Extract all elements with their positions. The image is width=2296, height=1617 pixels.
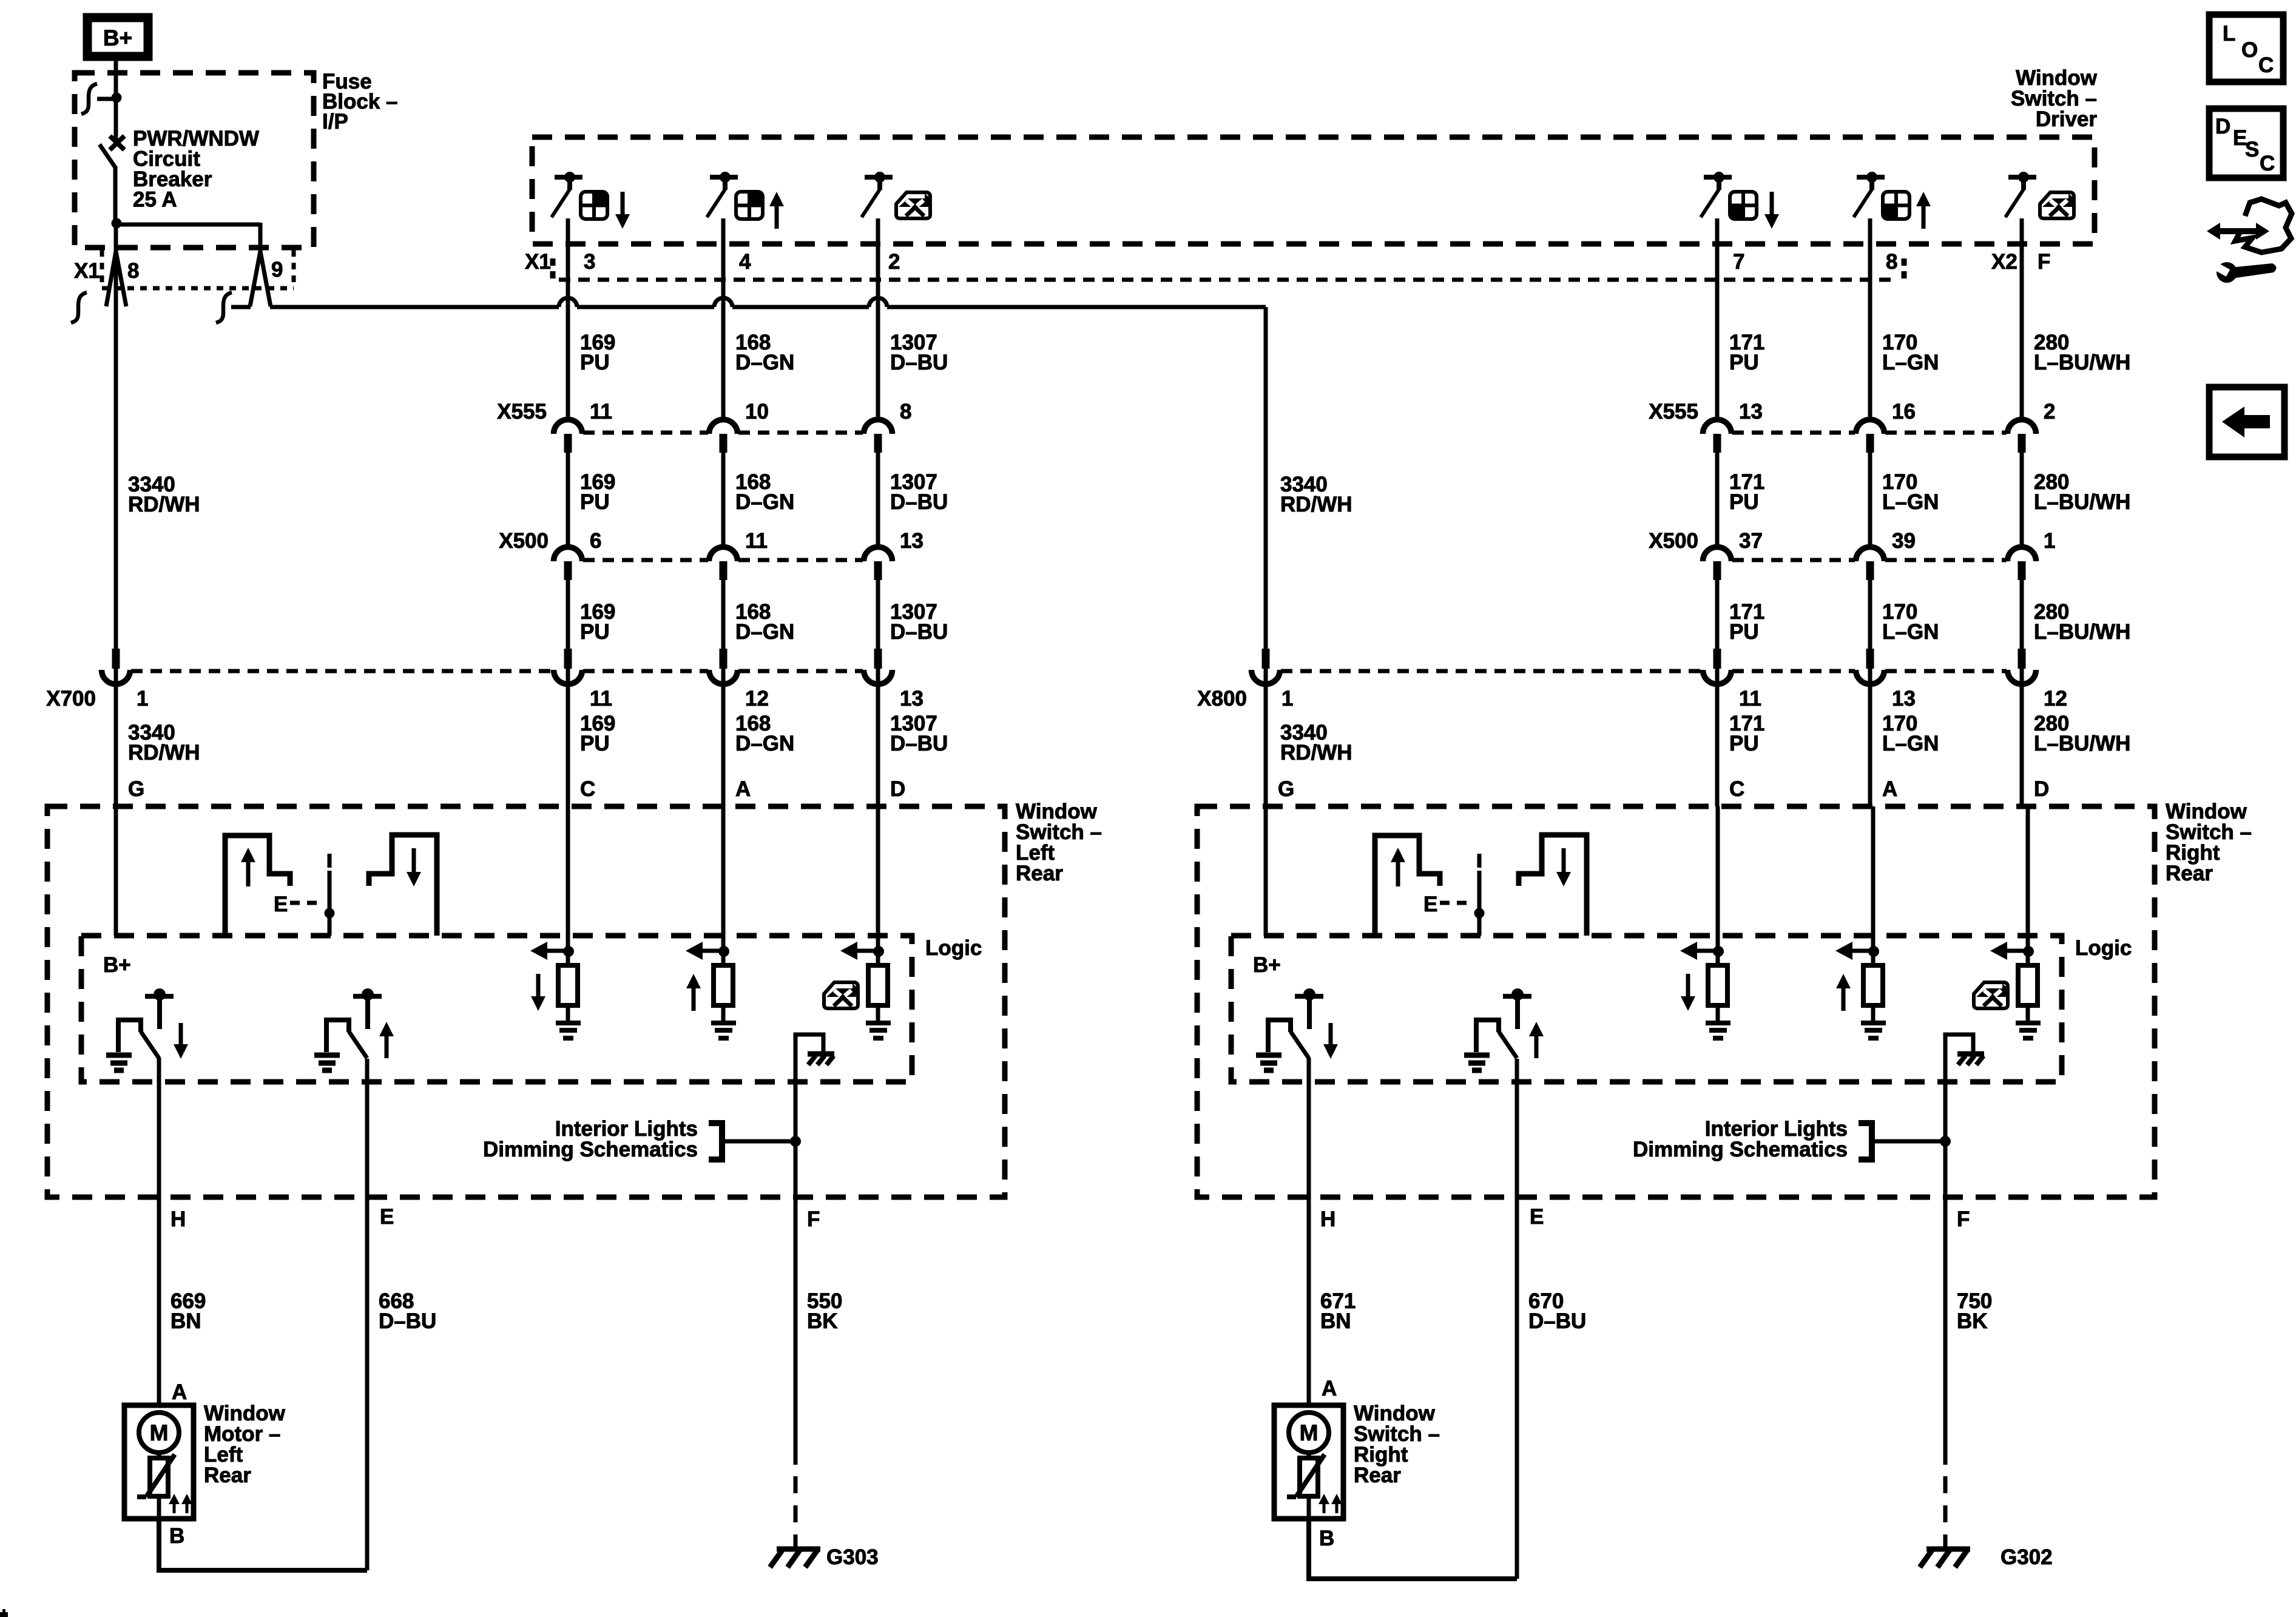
svg-text:10: 10 <box>745 400 769 424</box>
logic box <box>81 936 912 1082</box>
svg-text:6: 6 <box>590 529 601 553</box>
svg-text:X555: X555 <box>497 400 547 424</box>
svg-text:H: H <box>171 1207 186 1231</box>
switch S6 window express <box>2005 172 2074 218</box>
svg-text:25 A: 25 A <box>133 188 177 212</box>
pin A <box>735 777 751 801</box>
connector X555 pin 16 <box>1856 400 1916 453</box>
wire 3340 RD/WH left <box>114 306 118 649</box>
svg-text:16: 16 <box>1892 400 1916 424</box>
svg-text:Logic: Logic <box>925 936 982 960</box>
pin E left <box>380 1205 394 1229</box>
wire label 169 PU <box>580 600 615 644</box>
interior lights dimming note <box>483 1117 698 1161</box>
pin 4 <box>739 250 751 274</box>
svg-text:1: 1 <box>1281 687 1293 711</box>
svg-text:O: O <box>2241 38 2258 62</box>
window switch left rear label <box>1016 800 1102 885</box>
resistor express branch <box>1974 942 2041 1038</box>
wire motor B return <box>1309 1519 1517 1579</box>
connector X555 pin 8 <box>864 400 912 453</box>
logic label <box>2075 936 2132 960</box>
svg-text:A: A <box>1322 1377 1337 1400</box>
pin F left <box>807 1207 820 1231</box>
svg-text:11: 11 <box>1739 687 1761 711</box>
svg-text:4: 4 <box>739 250 751 274</box>
pin F <box>2038 250 2050 274</box>
svg-text:G: G <box>128 777 144 801</box>
svg-text:D–BU: D–BU <box>890 620 948 644</box>
wire <box>2020 218 2024 419</box>
svg-text:RD/WH: RD/WH <box>128 741 200 765</box>
window switch right rear box <box>1197 806 2155 1197</box>
wire <box>1868 579 1872 649</box>
svg-text:D: D <box>2034 777 2049 801</box>
wire label 170 L–GN <box>1882 331 1939 374</box>
window switch right rear label <box>2166 800 2252 885</box>
wire A into logic <box>1871 806 1876 951</box>
svg-text:Rear: Rear <box>204 1463 251 1487</box>
connector X700 label <box>46 687 96 711</box>
pin B left <box>169 1524 184 1548</box>
switch S2 window up <box>707 172 784 229</box>
interior lights bracket <box>1859 1120 1951 1163</box>
svg-text:C: C <box>2258 53 2274 77</box>
svg-text:7: 7 <box>1733 250 1744 274</box>
pin C <box>1729 777 1744 801</box>
svg-text:8: 8 <box>127 259 139 283</box>
pin 8 <box>1886 250 1897 274</box>
wire <box>1715 452 1720 547</box>
connector X500 label right <box>1649 529 1698 553</box>
wire label 171 PU <box>1729 712 1764 755</box>
svg-text:13: 13 <box>1739 400 1763 424</box>
logic label <box>925 936 982 960</box>
fuse block label <box>322 70 398 133</box>
pin 3 <box>584 250 595 274</box>
connector X500 pin 11 <box>709 529 768 580</box>
svg-text:X500: X500 <box>499 529 549 553</box>
bus hop over wire 1307 <box>869 298 887 307</box>
switch window down SPDT <box>1256 988 1338 1070</box>
svg-text:L–GN: L–GN <box>1882 732 1939 755</box>
svg-text:I/P: I/P <box>322 110 348 133</box>
svg-text:PU: PU <box>580 351 610 374</box>
svg-text:12: 12 <box>2044 687 2067 711</box>
wire 669 BN <box>159 1197 206 1405</box>
svg-text:PU: PU <box>1729 490 1759 514</box>
svg-text:13: 13 <box>1892 687 1916 711</box>
wire G to logic <box>114 806 118 936</box>
connector X700 pin 12 <box>709 649 769 711</box>
wire label 1307 D–BU <box>890 600 948 644</box>
page corner mark <box>0 1609 8 1617</box>
wire D into logic <box>2026 806 2030 951</box>
pin B right <box>1319 1527 1334 1550</box>
circuit breaker PWR/WNDW 25A <box>100 136 124 224</box>
svg-text:G303: G303 <box>826 1545 879 1569</box>
window switch driver label <box>2011 66 2098 131</box>
svg-text:F: F <box>807 1207 820 1231</box>
resistor up branch <box>686 942 736 1038</box>
back arrow box <box>2209 387 2284 457</box>
junction node <box>112 218 122 229</box>
window motor right rear <box>1274 1405 1343 1519</box>
svg-text:C: C <box>1729 777 1744 801</box>
case ground F <box>1945 1035 1984 1065</box>
svg-text:A: A <box>1882 777 1897 801</box>
svg-text:1: 1 <box>137 687 148 711</box>
dashed ground lead <box>1943 1476 1948 1549</box>
wire B+ to breaker <box>114 61 118 143</box>
bus wire pin9 to right feed <box>270 305 1266 309</box>
svg-text:E: E <box>1423 893 1437 916</box>
connector X500 pin 39 <box>1856 529 1916 580</box>
svg-text:D–BU: D–BU <box>890 351 948 374</box>
svg-text:E: E <box>380 1205 394 1229</box>
wire label 171 PU <box>1729 331 1764 374</box>
wire label 170 L–GN <box>1882 712 1939 755</box>
wire G to logic <box>1264 806 1268 936</box>
pin 7 <box>1733 250 1744 274</box>
connector X555 dashed row left <box>583 431 863 435</box>
window motor left rear label <box>204 1402 286 1487</box>
connector X500 pin 1 <box>2008 529 2056 580</box>
svg-text:1: 1 <box>2044 529 2055 553</box>
connector X1 fuse block dotted box <box>102 250 294 288</box>
ground G302 <box>1920 1545 2053 1569</box>
DESC box <box>2209 109 2283 178</box>
wire H out <box>1307 1058 1311 1197</box>
svg-text:C: C <box>580 777 595 801</box>
connector X800 pin 13 <box>1856 649 1916 711</box>
svg-text:RD/WH: RD/WH <box>1280 741 1352 765</box>
wire 550 BK <box>795 1197 842 1465</box>
resistor down branch <box>530 942 581 1038</box>
wire <box>2020 669 2024 806</box>
wire D into logic <box>876 806 880 951</box>
wire <box>721 218 726 419</box>
wire junction down to pin 8 <box>114 224 118 306</box>
wire <box>1264 669 1268 806</box>
window switch left rear box <box>47 806 1005 1197</box>
pin D <box>2034 777 2049 801</box>
svg-text:D: D <box>2215 115 2230 138</box>
interior lights bracket <box>709 1120 801 1163</box>
wire <box>2020 452 2024 547</box>
svg-text:M: M <box>1300 1420 1319 1445</box>
svg-text:X1: X1 <box>525 250 551 274</box>
junction dot <box>112 93 122 103</box>
wire <box>1868 452 1872 547</box>
connector X1 label <box>74 259 100 283</box>
LOC box <box>2209 15 2283 82</box>
svg-text:Dimming Schematics: Dimming Schematics <box>483 1138 698 1161</box>
svg-text:2: 2 <box>888 250 900 274</box>
svg-text:9: 9 <box>271 258 283 282</box>
wire C into logic <box>1716 806 1720 951</box>
svg-text:L–GN: L–GN <box>1882 490 1939 514</box>
pin G left <box>128 777 144 801</box>
wire <box>114 669 118 806</box>
ground G303 <box>770 1545 879 1569</box>
window switch driver box <box>532 137 2095 244</box>
svg-text:D–BU: D–BU <box>379 1309 436 1333</box>
svg-text:D–GN: D–GN <box>735 351 794 374</box>
svg-text:RD/WH: RD/WH <box>1280 493 1352 516</box>
wire H out <box>157 1058 161 1197</box>
wire motor B return <box>159 1519 367 1570</box>
pin F right <box>1957 1207 1970 1231</box>
pin G right <box>1278 777 1294 801</box>
logic box <box>1231 936 2062 1082</box>
connector X500 dashed row right <box>1732 558 2007 562</box>
connector X555 pin 2 <box>2008 400 2056 453</box>
svg-text:D–BU: D–BU <box>890 732 948 755</box>
svg-text:11: 11 <box>745 529 768 553</box>
svg-text:E: E <box>1530 1205 1544 1229</box>
svg-text:D–GN: D–GN <box>735 732 794 755</box>
pin A right <box>1322 1377 1337 1400</box>
svg-text:L–BU/WH: L–BU/WH <box>2034 620 2130 644</box>
wire <box>566 579 570 649</box>
connector X800 dashed row <box>1281 669 2007 673</box>
bus hop over wire 168 <box>714 298 732 307</box>
wire <box>721 579 726 649</box>
bus hop over wire 169 <box>559 298 577 307</box>
connector X500 pin 6 <box>554 529 602 580</box>
wire 671 BN <box>1309 1197 1356 1405</box>
wire 668 D-BU <box>367 1197 436 1570</box>
svg-text:E: E <box>274 893 288 916</box>
svg-text:Rear: Rear <box>1016 862 1063 885</box>
window motor right rear label <box>1354 1402 1440 1487</box>
wire label 280 L–BU/WH <box>2034 712 2130 755</box>
svg-text:B+: B+ <box>1253 953 1281 977</box>
svg-text:F: F <box>1957 1207 1970 1231</box>
connector X800 pin 11 <box>1703 649 1762 711</box>
svg-text:B+: B+ <box>103 25 132 50</box>
wire <box>1715 218 1720 419</box>
svg-text:PU: PU <box>1729 620 1759 644</box>
svg-text:B: B <box>169 1524 184 1548</box>
svg-text:Rear: Rear <box>2166 862 2213 885</box>
svg-text:8: 8 <box>1886 250 1897 274</box>
wire label 168 D–GN <box>735 470 794 514</box>
svg-text:G: G <box>1278 777 1294 801</box>
pin A left <box>172 1380 187 1404</box>
fuse block box <box>75 73 314 248</box>
pin C <box>580 777 595 801</box>
connector X700 dashed row <box>131 669 863 673</box>
svg-text:L–GN: L–GN <box>1882 620 1939 644</box>
svg-text:D: D <box>890 777 905 801</box>
wire label 168 D–GN <box>735 600 794 644</box>
connector X500 dashed row left <box>583 558 863 562</box>
wire <box>721 452 726 547</box>
wire <box>566 218 570 419</box>
connector X555 pin 13 <box>1703 400 1763 453</box>
connector X700 pin 1 <box>102 649 149 711</box>
resistor express branch <box>824 942 891 1038</box>
svg-text:Driver: Driver <box>2036 107 2098 131</box>
svg-text:S: S <box>2245 138 2259 161</box>
connector X1 driver label <box>525 250 553 283</box>
wire <box>876 452 880 547</box>
connector X2 label <box>1904 250 2017 283</box>
connector X800 label <box>1197 687 1247 711</box>
service icon hand wrench <box>2207 199 2292 283</box>
wire E out <box>1515 1059 1519 1197</box>
connector X1 driver dashed row <box>559 278 1898 282</box>
svg-text:39: 39 <box>1892 529 1916 553</box>
svg-text:G302: G302 <box>2001 1545 2053 1569</box>
svg-text:X500: X500 <box>1649 529 1698 553</box>
svg-text:X700: X700 <box>46 687 96 711</box>
case ground F <box>795 1035 834 1065</box>
pin E right <box>1530 1205 1544 1229</box>
wire C into logic <box>566 806 570 951</box>
svg-text:D–BU: D–BU <box>890 490 948 514</box>
window motor left rear <box>124 1405 194 1519</box>
wire label 3340 RD/WH <box>128 473 200 516</box>
svg-text:D–GN: D–GN <box>735 490 794 514</box>
connector X555 label left <box>497 400 547 424</box>
pin H right <box>1320 1207 1335 1231</box>
wire label 1307 D–BU <box>890 331 948 374</box>
wire label 3340 RD/WH <box>128 721 200 765</box>
connector X800 pin 12 <box>2008 649 2067 711</box>
wire 670 D-BU <box>1517 1197 1586 1579</box>
svg-text:12: 12 <box>745 687 769 711</box>
connector X500 label left <box>499 529 549 553</box>
svg-text:L: L <box>2223 22 2235 46</box>
wire label 171 PU <box>1729 600 1764 644</box>
switch S5 window up <box>1854 172 1931 229</box>
wire F down <box>1943 1053 1948 1197</box>
svg-text:L–BU/WH: L–BU/WH <box>2034 490 2130 514</box>
svg-text:11: 11 <box>590 400 612 424</box>
pin H left <box>171 1207 186 1231</box>
wire 750 BK <box>1945 1197 1992 1465</box>
svg-text:X555: X555 <box>1649 400 1698 424</box>
wire <box>1868 669 1872 806</box>
svg-text:Rear: Rear <box>1354 1463 1401 1487</box>
node B+ <box>103 953 131 977</box>
rocker mechanism <box>1375 835 1587 936</box>
connector X555 label right <box>1649 400 1698 424</box>
wire <box>876 579 880 649</box>
wire label 1307 D–BU <box>890 712 948 755</box>
svg-text:D–GN: D–GN <box>735 620 794 644</box>
svg-text:PU: PU <box>580 732 610 755</box>
wire label 169 PU <box>580 712 615 755</box>
connector X555 pin 11 <box>554 400 613 453</box>
wire label 3340 RD/WH <box>1280 721 1352 765</box>
svg-text:L–GN: L–GN <box>1882 351 1939 374</box>
wire <box>876 669 880 806</box>
svg-text:Dimming Schematics: Dimming Schematics <box>1633 1138 1848 1161</box>
wire label 169 PU <box>580 470 615 514</box>
wire junction to pin 9 <box>116 223 260 252</box>
switch window down SPDT <box>106 988 188 1070</box>
wire label 171 PU <box>1729 470 1764 514</box>
wire 3340 RD/WH right <box>1264 307 1268 649</box>
wire label 280 L–BU/WH <box>2034 470 2130 514</box>
battery B+ terminal <box>87 18 148 56</box>
wire E out <box>365 1059 370 1197</box>
svg-text:F: F <box>2038 250 2050 274</box>
rocker mechanism <box>225 835 437 936</box>
wire label 280 L–BU/WH <box>2034 331 2130 374</box>
svg-text:PU: PU <box>580 490 610 514</box>
svg-text:D–BU: D–BU <box>1528 1309 1586 1333</box>
wire label 170 L–GN <box>1882 600 1939 644</box>
switch S3 window express <box>862 172 930 218</box>
X1 pin 8 <box>71 251 139 323</box>
svg-text:13: 13 <box>900 529 923 553</box>
wire A into logic <box>721 806 726 951</box>
svg-text:PU: PU <box>1729 732 1759 755</box>
switch window up SPDT <box>314 988 394 1070</box>
node B+ <box>1253 953 1281 977</box>
interior lights dimming note <box>1633 1117 1848 1161</box>
resistor down branch <box>1680 942 1730 1038</box>
pin 2 <box>888 250 900 274</box>
connector X700 pin 13 <box>864 649 923 711</box>
pin D <box>890 777 905 801</box>
wire <box>1868 218 1872 419</box>
svg-text:BN: BN <box>1320 1309 1351 1333</box>
X1 pin 9 <box>216 251 283 323</box>
svg-text:3: 3 <box>584 250 595 274</box>
svg-text:2: 2 <box>2044 400 2055 424</box>
svg-text:M: M <box>150 1420 169 1445</box>
svg-text:13: 13 <box>900 687 923 711</box>
connector X555 dashed row right <box>1732 431 2007 435</box>
svg-text:A: A <box>172 1380 187 1404</box>
wire <box>1715 579 1720 649</box>
svg-text:X2: X2 <box>1991 250 2017 274</box>
circuit breaker label <box>133 127 259 212</box>
wire F down <box>794 1053 798 1197</box>
switch S4 window down <box>1701 172 1779 229</box>
svg-text:L–BU/WH: L–BU/WH <box>2034 351 2130 374</box>
terminal clip <box>81 84 115 114</box>
connector X500 pin 37 <box>1703 529 1763 580</box>
svg-text:PU: PU <box>1729 351 1759 374</box>
svg-text:RD/WH: RD/WH <box>128 493 200 516</box>
svg-text:BK: BK <box>807 1309 838 1333</box>
svg-text:PU: PU <box>580 620 610 644</box>
wire label 168 D–GN <box>735 331 794 374</box>
connector X555 pin 10 <box>709 400 769 453</box>
wire label 1307 D–BU <box>890 470 948 514</box>
wire label 168 D–GN <box>735 712 794 755</box>
wire <box>566 669 570 806</box>
wire label 170 L–GN <box>1882 470 1939 514</box>
svg-text:L–BU/WH: L–BU/WH <box>2034 732 2130 755</box>
svg-text:Logic: Logic <box>2075 936 2132 960</box>
pin A <box>1882 777 1897 801</box>
wire <box>1715 669 1720 806</box>
resistor up branch <box>1835 942 1886 1038</box>
svg-text:BN: BN <box>171 1309 201 1333</box>
wire <box>721 669 726 806</box>
switch window up SPDT <box>1464 988 1544 1070</box>
svg-text:C: C <box>2260 152 2275 175</box>
svg-text:A: A <box>735 777 751 801</box>
